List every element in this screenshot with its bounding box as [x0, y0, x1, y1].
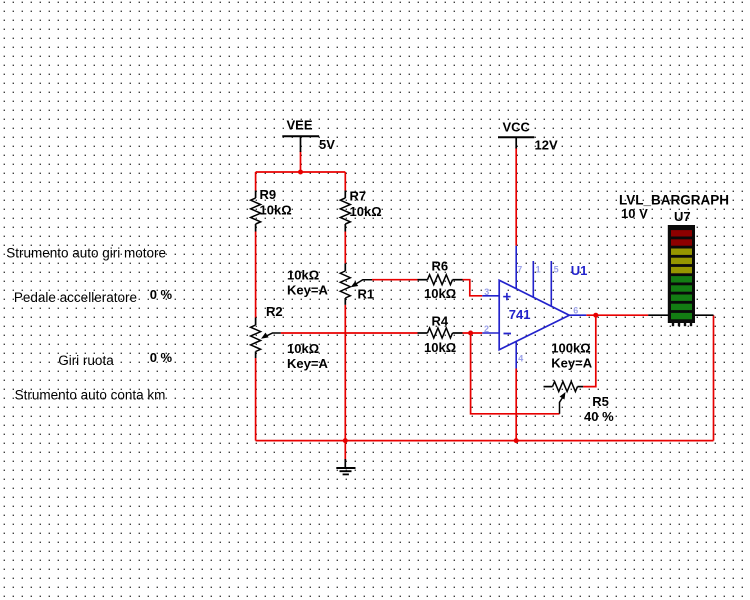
svg-text:10kΩ: 10kΩ: [260, 203, 292, 218]
svg-text:R7: R7: [350, 189, 367, 204]
svg-text:10kΩ: 10kΩ: [424, 340, 456, 355]
svg-text:10 V: 10 V: [621, 206, 648, 221]
svg-text:Key=A: Key=A: [551, 355, 592, 370]
svg-text:3: 3: [484, 287, 489, 297]
svg-text:Key=A: Key=A: [287, 356, 328, 371]
svg-text:40 %: 40 %: [584, 409, 614, 424]
svg-text:10kΩ: 10kΩ: [287, 268, 319, 283]
svg-text:R5: R5: [592, 394, 609, 409]
svg-text:Strumento auto conta km: Strumento auto conta km: [15, 388, 166, 403]
svg-text:6: 6: [573, 306, 578, 316]
svg-text:Key=A: Key=A: [287, 283, 328, 298]
svg-text:0 %: 0 %: [150, 287, 173, 302]
svg-text:R9: R9: [260, 187, 277, 202]
svg-text:10kΩ: 10kΩ: [350, 204, 382, 219]
svg-text:Giri ruota: Giri ruota: [58, 353, 114, 368]
svg-text:12V: 12V: [535, 138, 558, 153]
svg-text:5V: 5V: [319, 137, 335, 152]
svg-text:0 %: 0 %: [150, 350, 173, 365]
svg-text:Strumento auto giri motore: Strumento auto giri motore: [6, 246, 166, 261]
svg-text:4: 4: [518, 353, 523, 363]
svg-text:2: 2: [484, 324, 489, 334]
svg-text:R1: R1: [358, 287, 375, 302]
svg-text:5: 5: [554, 264, 559, 274]
svg-text:741: 741: [509, 307, 531, 322]
svg-text:R2: R2: [266, 304, 283, 319]
svg-text:Pedale accelleratore: Pedale accelleratore: [14, 290, 137, 305]
svg-text:VEE: VEE: [287, 118, 313, 133]
svg-text:U7: U7: [674, 209, 691, 224]
svg-text:10kΩ: 10kΩ: [287, 341, 319, 356]
svg-text:VCC: VCC: [503, 119, 531, 134]
svg-text:100kΩ: 100kΩ: [551, 341, 590, 356]
svg-text:U1: U1: [571, 263, 588, 278]
svg-text:7: 7: [517, 264, 522, 274]
svg-text:10kΩ: 10kΩ: [424, 286, 456, 301]
svg-text:R4: R4: [432, 314, 449, 329]
svg-text:R6: R6: [432, 259, 449, 274]
svg-text:1: 1: [536, 264, 541, 274]
